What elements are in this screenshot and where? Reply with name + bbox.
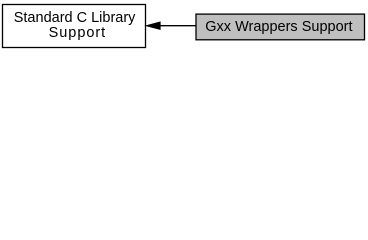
node: Gxx Wrappers Support <box>196 14 365 40</box>
svg-text:Gxx Wrappers Support: Gxx Wrappers Support <box>205 19 352 35</box>
node: Standard C Library Support <box>3 5 146 48</box>
wire: edge line from Gxx Wrappers Support to Standard C Library Support <box>160 25 196 27</box>
svg-text:Standard C Library: Standard C Library <box>14 10 136 26</box>
background <box>0 0 368 52</box>
arrowhead pointing at Standard C Library Support <box>146 22 160 29</box>
svg-text:Support: Support <box>49 25 106 41</box>
